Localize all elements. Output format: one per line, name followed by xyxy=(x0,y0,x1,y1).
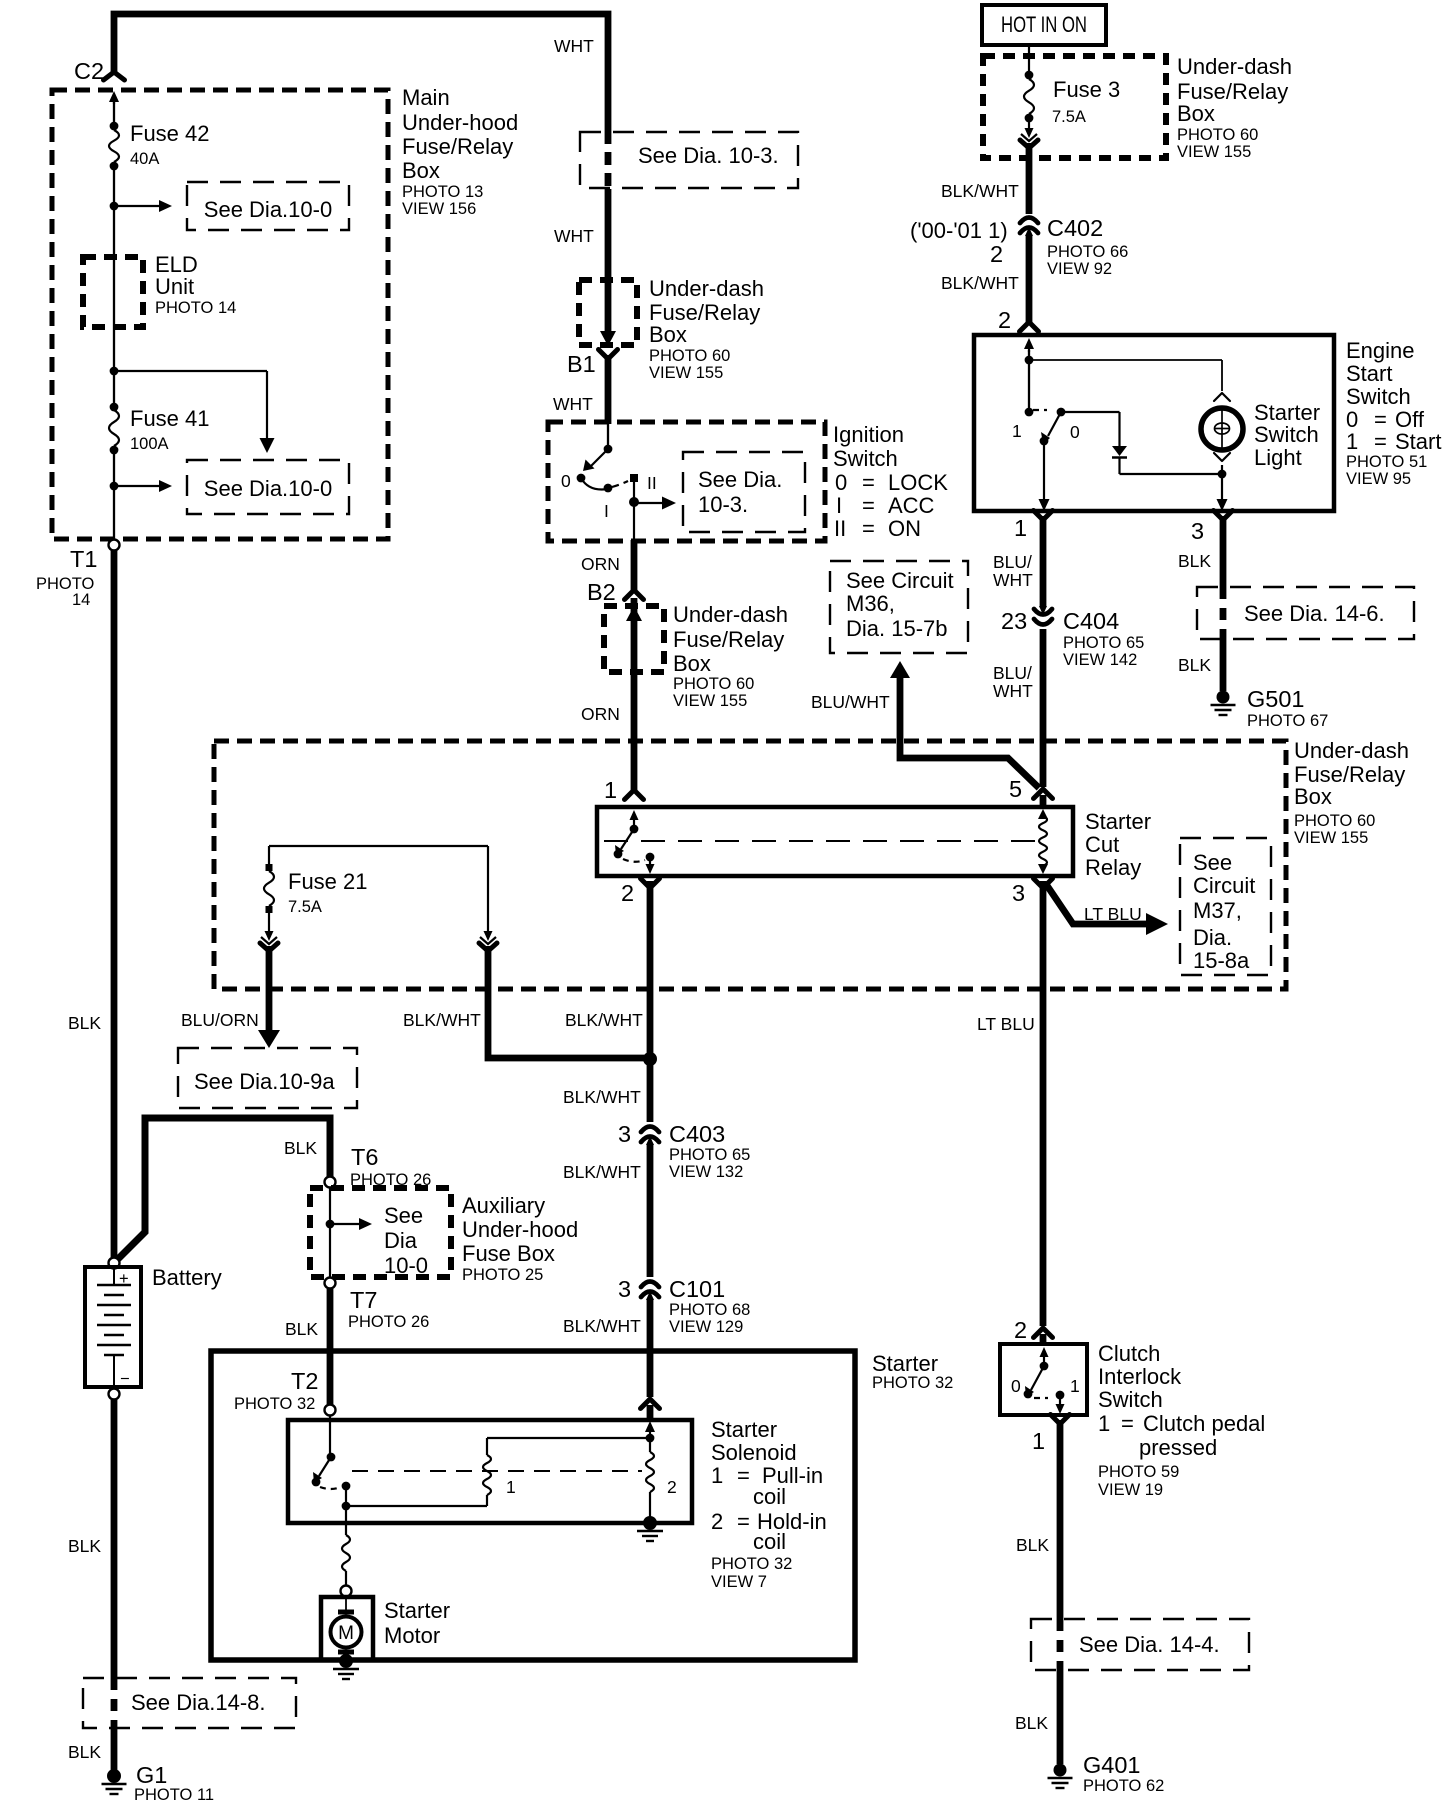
box: Under-dash Fuse/Relay Box (large dashed) xyxy=(214,741,1286,989)
svg-text:7.5A: 7.5A xyxy=(288,898,322,916)
node: tap to See Dia.10-0 (lower) via bent arrow xyxy=(110,367,119,376)
svg-text:ACC: ACC xyxy=(888,493,935,518)
wire: B2 to starter cut relay pin 1 (ORN) xyxy=(631,598,638,790)
svg-text:I: I xyxy=(604,501,609,521)
svg-text:C402: C402 xyxy=(1047,215,1103,241)
wire: BLU/WHT branch arrow up to M36 xyxy=(900,676,1039,788)
wire: solenoid contact to starter motor xyxy=(345,1506,347,1535)
connector C404 xyxy=(1034,619,1052,625)
relay coil (pins 5-3) xyxy=(1039,816,1047,866)
arrow into solenoid pin (from C101 wire) xyxy=(649,1430,651,1434)
svg-text:Light: Light xyxy=(1254,445,1302,470)
wire: ignition feed into switch xyxy=(607,424,609,449)
svg-text:BLK: BLK xyxy=(1015,1713,1048,1733)
svg-text:1: 1 xyxy=(711,1463,723,1488)
svg-text:Fuse/Relay: Fuse/Relay xyxy=(673,627,784,652)
svg-text:Under-dash: Under-dash xyxy=(1177,54,1292,79)
wire: relay pin 3 down to clutch interlock (LT BLU) xyxy=(1040,881,1047,1326)
svg-text:C404: C404 xyxy=(1063,608,1119,634)
wire: battery feed top bus from C2 to WHT column xyxy=(114,14,608,131)
svg-text:Box: Box xyxy=(1294,784,1332,809)
svg-text:G401: G401 xyxy=(1083,1752,1141,1778)
wire: C402 to engine start switch (BLK/WHT) xyxy=(1026,236,1033,322)
ref box: See Dia.10-0 (upper) xyxy=(187,182,349,230)
wire: battery negative down to G1 (BLK) xyxy=(111,1400,118,1678)
starter switch light lamp xyxy=(1214,393,1230,401)
svg-text:Start: Start xyxy=(1395,429,1441,454)
svg-text:BLK: BLK xyxy=(1178,551,1211,571)
wire: WHT segment through See Dia. 10-3 box xyxy=(605,131,612,189)
svg-text:Engine: Engine xyxy=(1346,338,1415,363)
fuse 41 (100A) xyxy=(110,403,119,412)
svg-text:0: 0 xyxy=(1070,422,1080,442)
svg-text:=: = xyxy=(737,1509,750,1534)
svg-text:Starter: Starter xyxy=(384,1598,450,1623)
connector: engine start switch pin 2 xyxy=(1020,322,1039,332)
connector into starter solenoid xyxy=(641,1399,660,1409)
svg-text:M36,: M36, xyxy=(846,591,895,616)
diode branch xyxy=(1061,411,1120,413)
connector B1 xyxy=(599,350,618,360)
wire: BLK/WHT branch joining starter solenoid feed xyxy=(488,946,646,1058)
svg-text:VIEW 129: VIEW 129 xyxy=(669,1318,743,1336)
wire: ignition output to box edge xyxy=(633,502,635,540)
node: tap arrow to See Dia.10-0 (lower) xyxy=(110,482,119,491)
svg-text:PHOTO 51: PHOTO 51 xyxy=(1346,453,1427,471)
svg-text:BLU/: BLU/ xyxy=(993,552,1032,572)
svg-text:1: 1 xyxy=(1098,1411,1110,1436)
ground: hold-in coil to solenoid case xyxy=(643,1516,657,1530)
svg-text:Solenoid: Solenoid xyxy=(711,1440,797,1465)
svg-text:coil: coil xyxy=(753,1484,786,1509)
svg-text:Box: Box xyxy=(649,322,687,347)
svg-text:3: 3 xyxy=(1012,880,1025,906)
ref box: See Dia. 14-6 xyxy=(1197,587,1414,639)
svg-text:=: = xyxy=(1121,1411,1134,1436)
ref box: See Dia. 10-3 (inside ignition) xyxy=(683,452,805,532)
svg-text:Dia: Dia xyxy=(384,1228,418,1253)
svg-text:PHOTO 65: PHOTO 65 xyxy=(669,1146,750,1164)
svg-text:PHOTO 60: PHOTO 60 xyxy=(1294,812,1375,830)
svg-text:Clutch: Clutch xyxy=(1098,1341,1160,1366)
svg-text:VIEW 155: VIEW 155 xyxy=(1177,143,1251,161)
terminal T2 xyxy=(325,1405,336,1416)
svg-text:Auxiliary: Auxiliary xyxy=(462,1193,545,1218)
wire: contact to pin 1 with arrow xyxy=(1043,441,1045,501)
svg-text:T7: T7 xyxy=(350,1287,377,1313)
wire: to ground G401 (BLK) xyxy=(1057,1670,1064,1764)
wire: relay pin 2 down (BLK/WHT) xyxy=(647,881,654,1122)
svg-text:See: See xyxy=(384,1203,423,1228)
wire: dashed through See Dia 14-6 box xyxy=(1220,587,1227,639)
ref box: See Dia.10-0 (lower) xyxy=(187,460,349,514)
ground: starter motor case xyxy=(339,1654,353,1668)
svg-text:PHOTO 32: PHOTO 32 xyxy=(711,1555,792,1573)
arrowhead up inside B2 box xyxy=(626,606,642,621)
svg-text:PHOTO 32: PHOTO 32 xyxy=(234,1395,315,1413)
svg-text:PHOTO 59: PHOTO 59 xyxy=(1098,1463,1179,1481)
box: Clutch Interlock Switch xyxy=(1000,1344,1087,1415)
svg-text:Unit: Unit xyxy=(155,274,194,299)
under-dash fuse/relay box at B1 (dashed) xyxy=(579,280,637,345)
node: tap to See Dia 10-0 inside aux box xyxy=(326,1220,335,1229)
svg-text:2: 2 xyxy=(990,241,1003,267)
connector C101 xyxy=(641,1282,659,1288)
svg-text:See Dia.: See Dia. xyxy=(698,467,782,492)
svg-text:2: 2 xyxy=(998,307,1011,333)
svg-text:Fuse 21: Fuse 21 xyxy=(288,869,368,894)
svg-text:PHOTO 13: PHOTO 13 xyxy=(402,183,483,201)
connector B2 xyxy=(625,590,644,600)
svg-text:WHT: WHT xyxy=(993,681,1033,701)
svg-text:VIEW 155: VIEW 155 xyxy=(673,692,747,710)
svg-text:1: 1 xyxy=(506,1477,516,1497)
svg-text:See Dia.10-9a: See Dia.10-9a xyxy=(194,1069,335,1094)
svg-text:Relay: Relay xyxy=(1085,855,1141,880)
svg-text:Under-hood: Under-hood xyxy=(402,110,518,135)
svg-text:WHT: WHT xyxy=(993,570,1033,590)
battery xyxy=(109,1258,120,1269)
wire: WHT down to under-dash fuse/relay box B1 xyxy=(605,189,612,336)
node: junction with fuse 21 branch xyxy=(643,1052,657,1066)
svg-text:2: 2 xyxy=(667,1477,677,1497)
svg-text:B2: B2 xyxy=(587,579,616,605)
svg-text:=: = xyxy=(737,1463,750,1488)
svg-text:Box: Box xyxy=(402,158,440,183)
wire: switch common xyxy=(1028,350,1030,360)
svg-text:BLK: BLK xyxy=(1016,1535,1049,1555)
arrow into engine start switch xyxy=(1028,347,1030,352)
wire: fuse 3 to C402 (BLK/WHT) xyxy=(1026,143,1033,214)
svg-text:2: 2 xyxy=(711,1509,723,1534)
box: Ignition Switch (dashed) xyxy=(548,422,825,541)
svg-text:BLU/ORN: BLU/ORN xyxy=(181,1010,259,1030)
wire: LT BLU arrow from pin 3 to M37 xyxy=(1046,884,1148,924)
svg-text:B1: B1 xyxy=(567,351,596,377)
svg-text:PHOTO 60: PHOTO 60 xyxy=(1177,126,1258,144)
box: Engine Start Switch xyxy=(974,335,1334,511)
engine start switch contact xyxy=(1028,360,1030,412)
svg-text:VIEW 132: VIEW 132 xyxy=(669,1163,743,1181)
wire: to ground G1 xyxy=(111,1728,118,1770)
svg-text:PHOTO 26: PHOTO 26 xyxy=(348,1313,429,1331)
svg-text:See Dia. 10-3.: See Dia. 10-3. xyxy=(638,143,779,168)
svg-text:15-8a: 15-8a xyxy=(1193,948,1250,973)
svg-text:Under-dash: Under-dash xyxy=(649,276,764,301)
svg-text:1: 1 xyxy=(1070,1376,1080,1396)
svg-text:100A: 100A xyxy=(130,435,169,453)
svg-text:PHOTO 32: PHOTO 32 xyxy=(872,1374,953,1392)
ground G401 xyxy=(1054,1764,1067,1777)
wire: rail to starter switch light xyxy=(1029,359,1222,361)
svg-text:PHOTO 60: PHOTO 60 xyxy=(673,675,754,693)
solenoid contact from T2 xyxy=(329,1416,331,1457)
svg-text:=: = xyxy=(1374,429,1387,454)
svg-text:G1: G1 xyxy=(136,1762,167,1788)
svg-text:PHOTO 60: PHOTO 60 xyxy=(649,347,730,365)
svg-text:ON: ON xyxy=(888,516,921,541)
pull-in coil (1) xyxy=(487,1437,650,1439)
solenoid mechanical dashed link xyxy=(352,1470,642,1472)
svg-text:BLK: BLK xyxy=(1178,655,1211,675)
ELD unit (dashed box) xyxy=(83,257,143,327)
ref box: See Circuit M36, Dia. 15-7b xyxy=(830,561,968,653)
svg-text:T6: T6 xyxy=(351,1144,378,1170)
svg-text:=: = xyxy=(862,470,875,495)
svg-text:Switch: Switch xyxy=(833,446,898,471)
arrow + connector below fuse 21 xyxy=(268,913,270,933)
svg-text:3: 3 xyxy=(618,1121,631,1147)
svg-text:VIEW 19: VIEW 19 xyxy=(1098,1481,1163,1499)
svg-text:Starter: Starter xyxy=(711,1417,777,1442)
ref box: See Circuit M37, Dia. 15-8a xyxy=(1180,838,1271,975)
svg-text:LT BLU: LT BLU xyxy=(1084,904,1142,924)
svg-text:=: = xyxy=(862,516,875,541)
svg-text:LOCK: LOCK xyxy=(888,470,948,495)
svg-text:WHT: WHT xyxy=(554,226,594,246)
svg-text:Fuse 41: Fuse 41 xyxy=(130,406,210,431)
ground G1 xyxy=(107,1769,121,1783)
node: lamp to pin 3 xyxy=(1221,465,1223,474)
node: tap to See Dia.10-0 (upper) xyxy=(110,202,119,211)
svg-text:BLU/: BLU/ xyxy=(993,663,1032,683)
svg-text:See Dia.10-0: See Dia.10-0 xyxy=(204,476,332,501)
svg-text:Circuit: Circuit xyxy=(1193,873,1255,898)
svg-text:VIEW 7: VIEW 7 xyxy=(711,1573,767,1591)
svg-text:1: 1 xyxy=(1346,429,1358,454)
svg-text:PHOTO 68: PHOTO 68 xyxy=(669,1301,750,1319)
connector C403 xyxy=(641,1127,659,1133)
arrow + connector leaving fuse box xyxy=(1028,121,1030,130)
svg-text:3: 3 xyxy=(1191,518,1204,544)
svg-text:C403: C403 xyxy=(669,1121,725,1147)
tag box: HOT IN ON xyxy=(982,5,1106,45)
box: Main Under-hood Fuse/Relay Box (dashed) xyxy=(52,90,388,539)
svg-text:1: 1 xyxy=(604,777,617,803)
ref box: See Dia. 10-3 (top) xyxy=(580,132,798,188)
wire: ignition to B2 (ORN) xyxy=(631,540,638,592)
svg-text:=: = xyxy=(862,493,875,518)
wire: C403 to C101 (BLK/WHT) xyxy=(647,1145,654,1277)
wire: into ELD unit xyxy=(113,206,115,257)
svg-text:BLK: BLK xyxy=(284,1138,317,1158)
fuse 42 (40A) xyxy=(110,122,119,131)
ref box: See Dia. 14-4 xyxy=(1031,1619,1249,1670)
clutch interlock contact xyxy=(1043,1355,1045,1362)
svg-text:Box: Box xyxy=(673,651,711,676)
wire: T1 to battery (BLK) xyxy=(111,551,118,1257)
svg-text:BLK/WHT: BLK/WHT xyxy=(565,1010,643,1030)
svg-text:BLK/WHT: BLK/WHT xyxy=(941,181,1019,201)
svg-text:ORN: ORN xyxy=(581,704,620,724)
svg-text:M37,: M37, xyxy=(1193,898,1242,923)
svg-text:M: M xyxy=(338,1623,354,1644)
svg-text:BLK/WHT: BLK/WHT xyxy=(941,273,1019,293)
svg-text:BLK: BLK xyxy=(68,1013,101,1033)
wire: to ground G501 (BLK) xyxy=(1220,639,1227,691)
svg-text:Interlock: Interlock xyxy=(1098,1364,1182,1389)
svg-text:PHOTO 25: PHOTO 25 xyxy=(462,1266,543,1284)
svg-text:Motor: Motor xyxy=(384,1623,440,1648)
svg-text:VIEW 155: VIEW 155 xyxy=(649,364,723,382)
svg-text:BLK: BLK xyxy=(68,1742,101,1762)
svg-text:10-0: 10-0 xyxy=(384,1253,428,1278)
svg-text:Switch: Switch xyxy=(1098,1387,1163,1412)
svg-text:Under-dash: Under-dash xyxy=(673,602,788,627)
svg-text:23: 23 xyxy=(1001,608,1027,634)
svg-text:BLK: BLK xyxy=(285,1319,318,1339)
svg-text:−: − xyxy=(120,1370,130,1388)
node: ignition output junction xyxy=(629,497,639,507)
svg-text:pressed: pressed xyxy=(1139,1435,1217,1460)
svg-text:Fuse 3: Fuse 3 xyxy=(1053,77,1120,102)
wire: switch output II down xyxy=(633,482,635,502)
svg-text:Under-hood: Under-hood xyxy=(462,1217,578,1242)
wire: inside under-hood box vertical xyxy=(113,102,115,127)
svg-text:PHOTO 67: PHOTO 67 xyxy=(1247,712,1328,730)
svg-text:WHT: WHT xyxy=(554,36,594,56)
wire: pin 3 BLK to See Dia 14-6 xyxy=(1220,516,1227,587)
wire: battery positive jumper to T6 xyxy=(114,1118,330,1263)
box: Starter Solenoid xyxy=(288,1420,692,1523)
ground G501 xyxy=(1217,691,1230,704)
box: Starter xyxy=(211,1351,855,1660)
svg-text:Switch: Switch xyxy=(1346,384,1411,409)
svg-text:2: 2 xyxy=(621,880,634,906)
svg-text:VIEW 92: VIEW 92 xyxy=(1047,260,1112,278)
ignition switch contact assembly xyxy=(604,445,613,454)
box: Auxiliary Under-hood Fuse Box (dashed) xyxy=(310,1188,451,1277)
svg-text:See Dia.10-0: See Dia.10-0 xyxy=(204,197,332,222)
svg-text:Main: Main xyxy=(402,85,450,110)
terminal T7 xyxy=(325,1278,336,1289)
svg-text:Box: Box xyxy=(1177,101,1215,126)
svg-text:Fuse 42: Fuse 42 xyxy=(130,121,210,146)
svg-text:BLK/WHT: BLK/WHT xyxy=(563,1087,641,1107)
svg-text:2: 2 xyxy=(1014,1317,1027,1343)
svg-text:BLK/WHT: BLK/WHT xyxy=(403,1010,481,1030)
svg-text:PHOTO 11: PHOTO 11 xyxy=(134,1786,214,1800)
arrowhead down inside B1 box xyxy=(600,331,616,346)
svg-text:Starter: Starter xyxy=(872,1351,938,1376)
svg-text:PHOTO 14: PHOTO 14 xyxy=(155,299,236,317)
wire: BLU/ORN out of box to See Dia.10-9a xyxy=(266,946,273,1032)
svg-text:LT BLU: LT BLU xyxy=(977,1014,1035,1034)
terminal T6 xyxy=(325,1177,336,1188)
svg-text:VIEW 95: VIEW 95 xyxy=(1346,470,1411,488)
svg-text:VIEW 156: VIEW 156 xyxy=(402,200,476,218)
svg-text:HOT IN ON: HOT IN ON xyxy=(1001,12,1087,37)
svg-text:T1: T1 xyxy=(70,546,97,572)
svg-text:Fuse/Relay: Fuse/Relay xyxy=(402,134,513,159)
svg-text:5: 5 xyxy=(1009,776,1022,802)
fuse 21 (7.5A) xyxy=(268,846,270,867)
starter motor xyxy=(321,1597,373,1660)
wire: ELD to fuse 41 xyxy=(113,257,115,371)
svg-text:40A: 40A xyxy=(130,150,159,168)
svg-text:II: II xyxy=(834,516,846,541)
svg-text:BLK/WHT: BLK/WHT xyxy=(563,1162,641,1182)
wire: clutch pin 1 to See Dia 14-4 (BLK) xyxy=(1057,1420,1064,1619)
svg-text:T2: T2 xyxy=(291,1368,318,1394)
wire: T7 to T2 (BLK) xyxy=(327,1289,334,1404)
svg-text:G501: G501 xyxy=(1247,686,1305,712)
svg-text:PHOTO 62: PHOTO 62 xyxy=(1083,1777,1164,1795)
svg-text:PHOTO 65: PHOTO 65 xyxy=(1063,634,1144,652)
svg-text:See Circuit: See Circuit xyxy=(846,568,954,593)
hold-in coil (2) xyxy=(649,1438,651,1452)
wire: dashed through See Dia 14-4 xyxy=(1057,1619,1064,1670)
svg-text:See Dia. 14-6.: See Dia. 14-6. xyxy=(1244,601,1385,626)
svg-text:See Dia.14-8.: See Dia.14-8. xyxy=(131,1690,266,1715)
wire: C101 into starter (BLK/WHT) xyxy=(647,1300,654,1397)
svg-text:Ignition: Ignition xyxy=(833,422,904,447)
wire: HOT IN ON into fuse 3 xyxy=(1028,45,1030,72)
wire: fuse 21 feeder rail xyxy=(269,845,488,847)
ref box: See Dia.10-9a xyxy=(178,1048,357,1108)
svg-text:0: 0 xyxy=(835,470,847,495)
connector C402 xyxy=(1020,218,1038,224)
relay box: Starter Cut Relay xyxy=(597,807,1073,876)
svg-text:Dia. 15-7b: Dia. 15-7b xyxy=(846,616,948,641)
svg-text:C101: C101 xyxy=(669,1276,725,1302)
wire: T6 to T7 inside aux box xyxy=(329,1188,331,1277)
svg-text:Under-dash: Under-dash xyxy=(1294,738,1409,763)
svg-text:See Dia. 14-4.: See Dia. 14-4. xyxy=(1079,1632,1220,1657)
svg-text:0: 0 xyxy=(1011,1376,1021,1396)
svg-text:coil: coil xyxy=(753,1529,786,1554)
relay contact (pins 1-2) xyxy=(633,818,635,826)
svg-text:See: See xyxy=(1193,850,1232,875)
fuse 3 (7.5A) xyxy=(1025,71,1034,80)
svg-text:0: 0 xyxy=(561,471,571,491)
svg-text:Switch: Switch xyxy=(1254,422,1319,447)
arrow into box at C2 xyxy=(113,100,115,104)
svg-text:WHT: WHT xyxy=(553,394,593,414)
svg-text:1: 1 xyxy=(1014,515,1027,541)
wire: dashed through See Dia.14-8 xyxy=(111,1678,118,1728)
svg-text:BLK: BLK xyxy=(68,1536,101,1556)
svg-text:Clutch pedal: Clutch pedal xyxy=(1143,1411,1265,1436)
connector C2 xyxy=(104,72,125,80)
svg-text:I: I xyxy=(836,493,842,518)
svg-text:BLU/WHT: BLU/WHT xyxy=(811,692,890,712)
wire: B1 to ignition switch (WHT) xyxy=(605,355,612,424)
svg-text:PHOTO 66: PHOTO 66 xyxy=(1047,243,1128,261)
arrow + connector on BLK/WHT branch xyxy=(487,846,489,933)
svg-text:II: II xyxy=(647,473,657,493)
svg-text:ORN: ORN xyxy=(581,554,620,574)
svg-text:VIEW 142: VIEW 142 xyxy=(1063,651,1137,669)
terminal T1 xyxy=(109,540,120,551)
svg-text:Battery: Battery xyxy=(152,1265,222,1290)
svg-text:3: 3 xyxy=(618,1276,631,1302)
svg-text:+: + xyxy=(119,1270,129,1288)
svg-text:Start: Start xyxy=(1346,361,1392,386)
svg-text:1: 1 xyxy=(1032,1428,1045,1454)
under-dash fuse/relay box with fuse 3 (dashed) xyxy=(983,56,1166,158)
wire: lamp junction to pin 3 with arrow xyxy=(1221,474,1223,501)
ref box: See Dia.14-8 xyxy=(83,1678,296,1728)
svg-text:1: 1 xyxy=(1012,421,1022,441)
wire: pin 1 BLU/WHT to C404 xyxy=(1040,516,1047,607)
relay mechanical dashed link xyxy=(604,840,1035,842)
arrow to See Dia. 10-3 (inner) xyxy=(634,502,664,504)
svg-text:Fuse Box: Fuse Box xyxy=(462,1241,555,1266)
svg-text:10-3.: 10-3. xyxy=(698,492,748,517)
svg-text:14: 14 xyxy=(72,591,90,609)
wire: to terminal T1 xyxy=(113,486,115,539)
